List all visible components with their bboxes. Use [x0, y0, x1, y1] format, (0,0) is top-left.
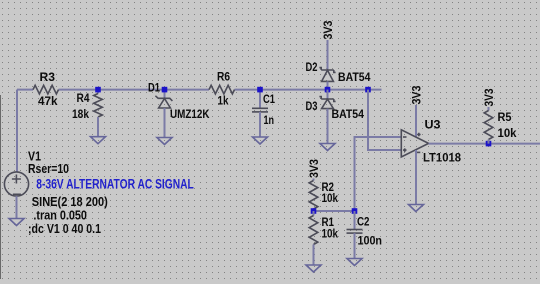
- svg-text:47k: 47k: [38, 94, 58, 108]
- svg-text:D3: D3: [306, 99, 318, 113]
- wire: main rail left segment to R3: [17, 89, 33, 91]
- wire: R5 bottom lead: [488, 140, 490, 144]
- wire: D1 bottom lead: [164, 108, 166, 138]
- svg-text:SINE(2 18 200): SINE(2 18 200): [32, 195, 108, 209]
- svg-text:C2: C2: [357, 215, 370, 229]
- wire: main rail R6 to end stub: [235, 89, 382, 91]
- node junction to comparator input: [365, 87, 371, 93]
- svg-text:C1: C1: [263, 92, 275, 106]
- ground below D1: [157, 138, 172, 145]
- svg-text:Rser=10: Rser=10: [28, 162, 69, 176]
- node junction D2/D3: [325, 87, 331, 93]
- svg-text:18k: 18k: [72, 107, 89, 121]
- svg-text:R3: R3: [40, 70, 56, 84]
- resistor R5: [484, 111, 493, 140]
- ground below R4: [91, 137, 106, 144]
- op-amp U3 LT1018: [401, 130, 428, 157]
- wire: op-amp output to right edge: [429, 143, 540, 145]
- svg-text:100n: 100n: [358, 233, 383, 247]
- node junction at C1: [257, 87, 263, 93]
- resistor R3: [33, 85, 59, 94]
- wire: R2 top stub: [313, 179, 315, 181]
- svg-text:R5: R5: [498, 110, 512, 124]
- ground below C2: [347, 259, 362, 266]
- diode D2 schottky: [319, 68, 335, 82]
- diode D1 zener: [155, 96, 172, 108]
- resistor R4: [94, 94, 103, 118]
- wire: left vertical from main rail to V1: [16, 90, 18, 172]
- svg-text:3V3: 3V3: [307, 159, 321, 178]
- node junction at C2: [352, 208, 358, 214]
- svg-text:10k: 10k: [322, 227, 339, 241]
- ground below op-amp: [409, 205, 424, 212]
- left screen edge artifact: [0, 95, 1, 279]
- wire: C1 top lead: [259, 90, 261, 109]
- wire: main rail R3 to R6: [59, 89, 210, 91]
- wire: R4 top lead: [97, 90, 99, 94]
- wire: C1 bottom lead: [259, 112, 261, 137]
- wire: op-amp V- down to ground: [415, 150, 417, 205]
- svg-text:10k: 10k: [498, 126, 517, 140]
- voltage source V1: [4, 172, 28, 196]
- capacitor C2: [347, 230, 363, 234]
- svg-text:BAT54: BAT54: [338, 70, 371, 84]
- ground below R1: [306, 265, 321, 272]
- ground below V1: [9, 219, 24, 226]
- svg-text:UMZ12K: UMZ12K: [170, 107, 210, 121]
- wire: divider node horizontal: [314, 210, 355, 212]
- node junction at R5 output: [486, 141, 492, 147]
- wire: V1 bottom to ground: [16, 196, 18, 218]
- wire: supply down to op-amp V+: [415, 105, 417, 137]
- wire: C2 top lead: [354, 211, 356, 230]
- wire: D3 anode down: [327, 109, 329, 144]
- svg-text:R4: R4: [77, 91, 90, 105]
- wire: R5 top stub: [488, 107, 490, 111]
- node junction divider: [311, 208, 317, 214]
- svg-text:3V3: 3V3: [321, 20, 335, 39]
- svg-text:U3: U3: [425, 118, 441, 132]
- capacitor C1: [252, 108, 268, 112]
- wire: R1 top lead: [313, 211, 315, 216]
- wire: 3V3 down to D2: [327, 40, 329, 70]
- wire: C2 bottom lead: [354, 233, 356, 258]
- wire: R2 bottom lead: [313, 209, 315, 211]
- svg-text:8-36V ALTERNATOR AC SIGNAL: 8-36V ALTERNATOR AC SIGNAL: [36, 176, 194, 191]
- svg-text:1k: 1k: [218, 93, 229, 107]
- resistor R1: [309, 216, 318, 245]
- wire: D1 top lead: [164, 90, 166, 99]
- svg-text:3V3: 3V3: [409, 85, 423, 104]
- ground below D3: [320, 144, 335, 151]
- node junction at D1: [162, 87, 168, 93]
- resistor R2: [309, 181, 318, 210]
- svg-text:.tran 0.050: .tran 0.050: [33, 209, 87, 223]
- svg-text:3V3: 3V3: [482, 88, 496, 106]
- node junction at R4: [95, 87, 101, 93]
- resistor R6: [209, 85, 235, 94]
- svg-text:BAT54: BAT54: [332, 107, 365, 121]
- wire: D2 anode to main rail: [327, 81, 329, 89]
- svg-text:D1: D1: [148, 80, 160, 94]
- svg-text:R6: R6: [217, 69, 230, 83]
- wire: R1 bottom lead: [313, 245, 315, 266]
- svg-text:1n: 1n: [264, 113, 275, 127]
- wire: signal down to + input: [368, 90, 402, 150]
- ground below C1: [253, 137, 268, 144]
- diode D3 schottky: [319, 97, 335, 109]
- svg-text:;dc V1 0 40 0.1: ;dc V1 0 40 0.1: [28, 222, 101, 236]
- svg-text:LT1018: LT1018: [423, 151, 461, 165]
- svg-text:10k: 10k: [322, 191, 339, 205]
- svg-text:D2: D2: [306, 60, 318, 74]
- wire: junction down to D3: [327, 90, 329, 99]
- wire: reference node up to - input: [355, 137, 402, 211]
- wire: R4 bottom lead: [97, 117, 99, 137]
